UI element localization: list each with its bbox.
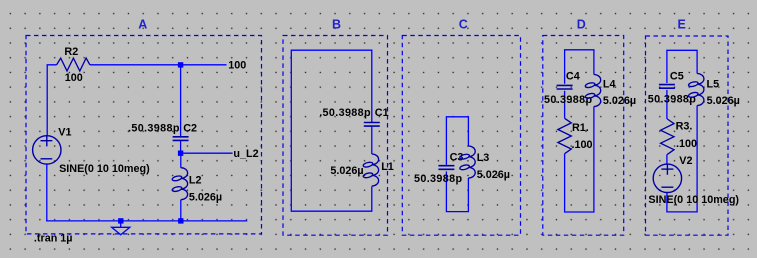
V1 plus bar	[41, 140, 53, 142]
svg-text:L4: L4	[603, 79, 616, 91]
capacitor C3	[438, 166, 454, 170]
svg-text:.100: .100	[676, 138, 697, 150]
wire L2 to bottom	[180, 200, 182, 221]
svg-text:.tran 1µ: .tran 1µ	[34, 233, 73, 245]
svg-text:SINE(0 10 10meg): SINE(0 10 10meg)	[648, 194, 739, 206]
svg-text:L3: L3	[477, 152, 490, 164]
junction ground	[118, 218, 123, 223]
svg-text:L2: L2	[189, 174, 202, 186]
svg-text:V1: V1	[58, 127, 71, 139]
svg-text:C: C	[459, 18, 468, 32]
svg-text:.50.3988p: .50.3988p	[319, 107, 371, 119]
svg-text:C3: C3	[450, 152, 464, 164]
svg-text:A: A	[138, 18, 147, 32]
wire left loop of A	[47, 65, 56, 136]
wire C2 to node u_L2	[180, 141, 182, 153]
capacitor C2	[173, 137, 189, 141]
ground symbol	[112, 227, 130, 235]
wire C1 to L1	[371, 126, 373, 154]
wire rect loop E	[667, 50, 697, 212]
ground stub	[120, 221, 122, 227]
junction top of C2	[178, 62, 183, 67]
svg-text:50.3988p: 50.3988p	[414, 173, 462, 185]
svg-text:V2: V2	[679, 155, 692, 167]
svg-text:5.026µ: 5.026µ	[477, 169, 510, 181]
svg-text:L1: L1	[381, 161, 394, 173]
dashed box E	[646, 36, 729, 235]
svg-text:100: 100	[65, 72, 83, 84]
capacitor C5	[659, 85, 675, 89]
svg-text:D: D	[577, 18, 586, 32]
svg-text:C1: C1	[375, 107, 389, 119]
svg-text:SINE(0 10 10meg): SINE(0 10 10meg)	[59, 163, 150, 175]
capacitor C1	[364, 123, 380, 127]
svg-text:B: B	[332, 18, 341, 32]
wire V1 to bottom	[46, 164, 48, 221]
capacitor C4	[557, 85, 573, 89]
dashed box C	[402, 36, 520, 236]
junction L2 bottom	[178, 218, 183, 223]
svg-text:5.026µ: 5.026µ	[707, 95, 740, 107]
wire to u_L2 label	[181, 152, 233, 154]
wire rect loop C	[446, 117, 468, 212]
inductor L3	[459, 146, 475, 178]
resistor R1	[558, 118, 571, 153]
svg-text:R2: R2	[64, 46, 78, 58]
V1 plus lead	[46, 136, 48, 147]
svg-text:100: 100	[228, 59, 246, 71]
inductor L4	[585, 75, 601, 107]
V2 plus lead	[666, 164, 668, 175]
svg-text:R3.: R3.	[676, 121, 693, 133]
inductor L5	[688, 74, 704, 106]
svg-text:5.026µ: 5.026µ	[603, 95, 636, 107]
inductor L2	[172, 168, 188, 200]
voltage source V1 circle	[33, 136, 61, 164]
svg-text:L5: L5	[707, 79, 720, 91]
svg-text:u_L2: u_L2	[233, 148, 258, 160]
V1 minus bar	[41, 158, 53, 160]
voltage source V2 circle	[653, 164, 681, 192]
dashed box B	[283, 36, 388, 236]
svg-text:C4: C4	[566, 70, 580, 82]
svg-text:R1.: R1.	[572, 122, 589, 134]
svg-text:C5: C5	[670, 70, 684, 82]
resistor R3	[661, 119, 674, 154]
wire rect loop D	[565, 50, 594, 212]
dashed box A	[26, 36, 262, 234]
junction u_L2	[178, 151, 183, 156]
wire junction to L2	[180, 153, 182, 168]
V2 minus bar	[661, 186, 673, 188]
V2 plus bar	[661, 168, 673, 170]
wire R2 to net 100	[90, 64, 227, 66]
svg-text:.100: .100	[572, 139, 593, 151]
svg-text:C2: C2	[183, 123, 197, 135]
svg-text:5.026µ: 5.026µ	[330, 165, 363, 177]
svg-text:5.026µ: 5.026µ	[189, 191, 222, 203]
bottom wire	[46, 220, 247, 222]
dashed box D	[543, 36, 624, 236]
inductor L1	[363, 154, 379, 186]
svg-text:E: E	[678, 18, 686, 32]
wire junction to C2	[180, 65, 182, 136]
resistor R2	[57, 58, 90, 71]
svg-text:.50.3988p: .50.3988p	[128, 123, 180, 135]
wire rect loop B	[291, 50, 372, 211]
